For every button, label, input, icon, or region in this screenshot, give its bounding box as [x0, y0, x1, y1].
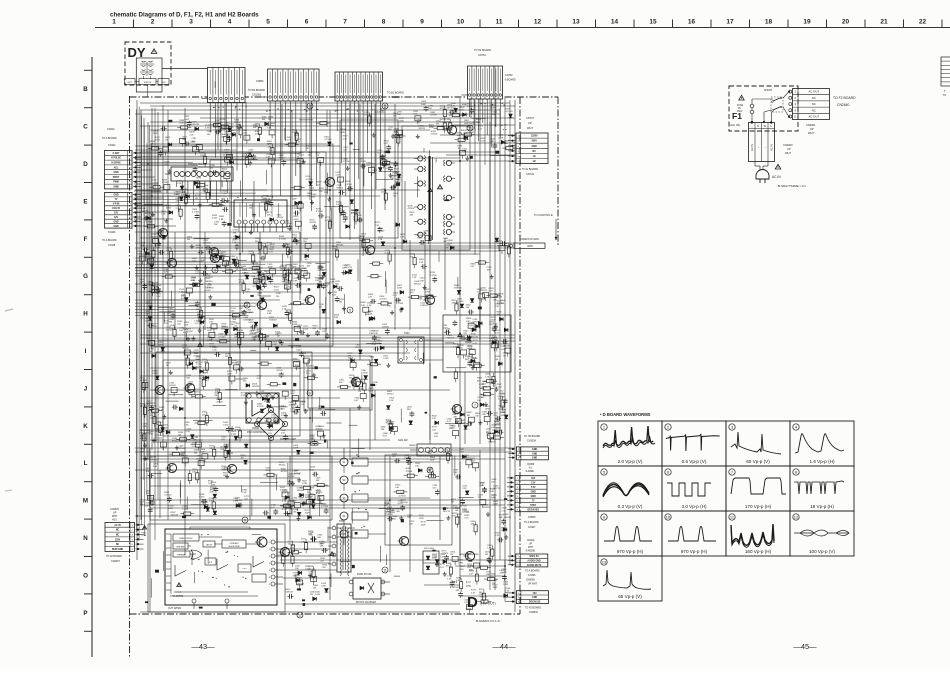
- svg-text:0.022: 0.022: [212, 218, 218, 220]
- svg-text:6.8K: 6.8K: [149, 285, 154, 287]
- svg-text:4.7/160: 4.7/160: [207, 287, 215, 289]
- svg-text:2.2K: 2.2K: [462, 488, 467, 490]
- svg-text:CN2600: CN2600: [783, 143, 793, 147]
- svg-text:MTZ12: MTZ12: [195, 362, 202, 364]
- svg-text:GND: GND: [532, 453, 537, 455]
- svg-text:AC OUT: AC OUT: [809, 90, 820, 94]
- svg-text:33K: 33K: [354, 379, 358, 381]
- svg-text:MTZ12: MTZ12: [310, 222, 317, 224]
- svg-text:10K: 10K: [395, 487, 399, 489]
- svg-text:2.2K: 2.2K: [184, 324, 189, 326]
- svg-text:1: 1: [112, 19, 116, 26]
- svg-text:33K: 33K: [316, 480, 320, 482]
- svg-text:GND: GND: [531, 496, 536, 498]
- svg-text:2.2K: 2.2K: [156, 248, 161, 250]
- svg-text:0.022: 0.022: [404, 458, 410, 460]
- svg-text:C: C: [83, 124, 88, 131]
- svg-text:MTZ12: MTZ12: [440, 108, 447, 110]
- svg-text:5: 5: [349, 308, 351, 312]
- svg-text:4.7/160: 4.7/160: [205, 127, 213, 129]
- svg-text:TV: TV: [115, 199, 118, 201]
- svg-text:6: 6: [269, 577, 270, 579]
- svg-text:160 Vp-p (H): 160 Vp-p (H): [745, 549, 772, 554]
- svg-text:170 Vp-p (H): 170 Vp-p (H): [745, 504, 772, 509]
- svg-text:47/50V: 47/50V: [378, 231, 385, 233]
- svg-text:1/2W: 1/2W: [498, 137, 503, 139]
- svg-text:1SS133: 1SS133: [364, 115, 372, 117]
- svg-text:10K: 10K: [165, 140, 169, 142]
- svg-text:4.7/160: 4.7/160: [164, 495, 172, 497]
- svg-text:10K: 10K: [491, 482, 495, 484]
- svg-text:6.8K: 6.8K: [359, 382, 364, 384]
- svg-text:2.2K: 2.2K: [477, 292, 482, 294]
- svg-text:TO E BOARD: TO E BOARD: [522, 167, 538, 171]
- svg-text:1SS133: 1SS133: [251, 263, 259, 265]
- svg-text:4.7/160: 4.7/160: [285, 223, 293, 225]
- svg-text:1/2W: 1/2W: [152, 326, 157, 328]
- svg-text:10K: 10K: [141, 245, 145, 247]
- svg-text:TO B1 BOARD: TO B1 BOARD: [248, 89, 265, 92]
- svg-text:1/2W: 1/2W: [268, 267, 273, 269]
- svg-text:3: 3: [189, 19, 193, 26]
- svg-text:33K: 33K: [222, 469, 226, 471]
- svg-text:1.5K: 1.5K: [269, 150, 274, 152]
- svg-text:7: 7: [343, 19, 347, 26]
- svg-text:1M: 1M: [286, 289, 289, 291]
- svg-text:2.2K: 2.2K: [375, 225, 380, 227]
- svg-text:1.5K: 1.5K: [270, 247, 275, 249]
- svg-text:1SS133: 1SS133: [503, 346, 511, 348]
- svg-text:6.8K: 6.8K: [242, 272, 247, 274]
- svg-text:4.7/160: 4.7/160: [506, 111, 514, 113]
- svg-text:10K: 10K: [150, 415, 154, 417]
- svg-text:33V: 33V: [531, 478, 536, 480]
- svg-text:1M: 1M: [195, 198, 198, 200]
- svg-text:GND: GND: [532, 458, 537, 460]
- svg-text:1.5K: 1.5K: [332, 249, 337, 251]
- svg-text:33K: 33K: [339, 382, 343, 384]
- svg-text:1: 1: [309, 104, 311, 108]
- svg-text:MTZ12: MTZ12: [419, 128, 426, 130]
- svg-text:1/2W: 1/2W: [466, 609, 471, 611]
- svg-text:1/2W: 1/2W: [261, 202, 266, 204]
- svg-text:10K: 10K: [457, 135, 461, 137]
- svg-text:1.5K: 1.5K: [229, 130, 234, 132]
- svg-text:1M: 1M: [301, 356, 304, 358]
- svg-text:MTZ12: MTZ12: [337, 188, 344, 190]
- svg-text:3: 3: [214, 268, 216, 272]
- svg-text:1M: 1M: [450, 554, 453, 556]
- svg-text:1.5K: 1.5K: [215, 391, 220, 393]
- svg-text:-S-R09E: -S-R09E: [525, 471, 534, 473]
- svg-text:4.7/160: 4.7/160: [361, 373, 369, 375]
- svg-text:1SS133: 1SS133: [501, 415, 509, 417]
- svg-text:10K: 10K: [188, 384, 192, 386]
- svg-text:GND: GND: [113, 221, 118, 223]
- svg-text:0.022: 0.022: [383, 358, 389, 360]
- svg-text:13: 13: [572, 19, 580, 26]
- svg-text:1/2W: 1/2W: [315, 594, 320, 596]
- svg-text:NC: NC: [812, 96, 816, 100]
- svg-text:6.8K: 6.8K: [456, 580, 461, 582]
- svg-text:CN707: CN707: [526, 116, 535, 120]
- svg-text:33K: 33K: [169, 322, 173, 324]
- svg-text:1.5K: 1.5K: [389, 400, 394, 402]
- svg-text:100P: 100P: [184, 119, 189, 121]
- svg-text:0.022: 0.022: [417, 238, 423, 240]
- svg-text:12V: 12V: [114, 213, 119, 215]
- svg-text:6.8K: 6.8K: [316, 493, 321, 495]
- svg-text:1M: 1M: [264, 339, 267, 341]
- svg-text:1SS133: 1SS133: [151, 460, 159, 462]
- svg-text:47/50V: 47/50V: [408, 208, 415, 210]
- svg-text:12V: 12V: [114, 217, 119, 219]
- svg-text:TO A BOARD: TO A BOARD: [524, 521, 539, 524]
- svg-text:47/50V: 47/50V: [496, 430, 503, 432]
- svg-text:15: 15: [649, 19, 657, 26]
- svg-text:10K: 10K: [455, 510, 459, 512]
- svg-text:1.5K: 1.5K: [281, 433, 286, 435]
- svg-text:1/2W: 1/2W: [164, 272, 169, 274]
- svg-text:JW950: JW950: [215, 80, 217, 88]
- svg-text:0.022: 0.022: [468, 361, 474, 363]
- svg-text:10K: 10K: [499, 517, 503, 519]
- svg-text:WHT: WHT: [785, 151, 791, 155]
- svg-text:100P: 100P: [158, 344, 163, 346]
- svg-text:0.022: 0.022: [155, 140, 161, 142]
- svg-text:10K: 10K: [475, 416, 479, 418]
- svg-text:47/50V: 47/50V: [406, 471, 413, 473]
- svg-text:MTZ12: MTZ12: [414, 283, 421, 285]
- svg-text:0.022: 0.022: [467, 348, 473, 350]
- svg-text:0.022: 0.022: [385, 253, 391, 255]
- svg-text:0.022: 0.022: [499, 393, 505, 395]
- svg-text:MTZ12: MTZ12: [279, 158, 286, 160]
- svg-text:7: 7: [269, 584, 270, 586]
- svg-text:NC: NC: [533, 151, 537, 153]
- svg-text:100P: 100P: [202, 373, 207, 375]
- svg-text:CN803N: CN803N: [526, 580, 535, 582]
- svg-text:—44—: —44—: [492, 642, 516, 651]
- svg-text:MTZ12: MTZ12: [194, 392, 201, 394]
- svg-text:1SS133: 1SS133: [503, 517, 511, 519]
- svg-text:GND: GND: [532, 449, 537, 451]
- svg-text:6.8K: 6.8K: [334, 317, 339, 319]
- svg-text:E: E: [83, 198, 87, 205]
- svg-text:1SS133: 1SS133: [278, 555, 286, 557]
- svg-text:47/50V: 47/50V: [162, 182, 169, 184]
- svg-text:FRE REF: FRE REF: [176, 546, 185, 548]
- svg-text:7: 7: [474, 403, 476, 407]
- svg-text:33K: 33K: [387, 305, 391, 307]
- svg-text:10K: 10K: [192, 471, 196, 473]
- svg-text:(AC IN): (AC IN): [730, 123, 740, 127]
- svg-text:33K: 33K: [181, 195, 185, 197]
- svg-text:13V: 13V: [533, 593, 538, 595]
- svg-text:0.022: 0.022: [157, 437, 163, 439]
- svg-text:UP WHT: UP WHT: [528, 584, 538, 586]
- svg-text:47/50V: 47/50V: [295, 368, 302, 370]
- svg-text:1M: 1M: [503, 355, 506, 357]
- svg-text:47/50V: 47/50V: [146, 221, 153, 223]
- svg-text:CN800: CN800: [256, 80, 264, 83]
- svg-text:1M: 1M: [178, 435, 181, 437]
- svg-text:47/50V: 47/50V: [294, 473, 301, 475]
- svg-text:6.8K: 6.8K: [201, 260, 206, 262]
- svg-text:CN10a: CN10a: [108, 144, 116, 147]
- svg-text:CN1000: CN1000: [391, 96, 401, 99]
- svg-text:4.7/160: 4.7/160: [306, 179, 314, 181]
- svg-text:AUDIO MUTE: AUDIO MUTE: [527, 564, 542, 567]
- svg-text:33K: 33K: [167, 315, 171, 317]
- svg-text:10K: 10K: [297, 328, 301, 330]
- svg-text:2.2K: 2.2K: [432, 418, 437, 420]
- svg-text:2.2K: 2.2K: [139, 433, 144, 435]
- svg-text:B-S04827-FX.1-S..: B-S04827-FX.1-S..: [476, 619, 502, 623]
- svg-text:1.5K: 1.5K: [184, 425, 189, 427]
- svg-text:1SS133: 1SS133: [358, 161, 366, 163]
- svg-text:32V/1.5A: 32V/1.5A: [529, 555, 539, 558]
- svg-text:1.5K: 1.5K: [177, 183, 182, 185]
- svg-text:4.7/160: 4.7/160: [394, 176, 402, 178]
- svg-text:1.5K: 1.5K: [159, 410, 164, 412]
- svg-text:1M: 1M: [324, 192, 327, 194]
- svg-text:1SS133: 1SS133: [171, 515, 179, 517]
- svg-text:1M: 1M: [447, 107, 450, 109]
- svg-text:1M: 1M: [224, 446, 227, 448]
- svg-text:1SS133: 1SS133: [336, 244, 344, 246]
- svg-text:10K: 10K: [261, 246, 265, 248]
- svg-text:7V: 7V: [532, 500, 535, 502]
- svg-text:B-SDA77S4ME.>-F1.: B-SDA77S4ME.>-F1.: [778, 184, 807, 188]
- svg-text:0.022: 0.022: [231, 434, 237, 436]
- svg-text:47/50V: 47/50V: [179, 448, 186, 450]
- svg-text:1/2W: 1/2W: [207, 330, 212, 332]
- svg-text:B: B: [83, 86, 88, 93]
- svg-text:MTZ12: MTZ12: [232, 363, 239, 365]
- svg-text:WHT: WHT: [527, 126, 533, 130]
- svg-text:NC: NC: [116, 535, 120, 537]
- svg-text:100P: 100P: [293, 447, 298, 449]
- svg-text:100P: 100P: [264, 273, 269, 275]
- svg-text:12: 12: [298, 613, 302, 617]
- svg-text:33K: 33K: [264, 421, 268, 423]
- svg-text:10K: 10K: [320, 546, 324, 548]
- svg-text:100P: 100P: [493, 504, 498, 506]
- svg-text:1M: 1M: [214, 395, 217, 397]
- svg-text:2.2K: 2.2K: [479, 387, 484, 389]
- svg-text:33K: 33K: [482, 414, 486, 416]
- svg-text:1SS133: 1SS133: [246, 312, 254, 314]
- svg-text:33K: 33K: [407, 409, 411, 411]
- svg-text:MTZ12: MTZ12: [151, 291, 158, 293]
- svg-text:2: 2: [151, 19, 155, 26]
- svg-text:—45—: —45—: [793, 642, 817, 651]
- svg-text:2.2K: 2.2K: [368, 314, 373, 316]
- svg-text:6.8K: 6.8K: [267, 128, 272, 130]
- svg-text:AC OUT: AC OUT: [809, 115, 820, 119]
- svg-text:6.8K: 6.8K: [219, 219, 224, 221]
- svg-text:4.7/160: 4.7/160: [316, 211, 324, 213]
- svg-text:1.5K: 1.5K: [359, 239, 364, 241]
- svg-text:100P: 100P: [292, 198, 297, 200]
- svg-text:100P: 100P: [153, 133, 158, 135]
- svg-text:1M: 1M: [187, 387, 190, 389]
- svg-text:100P: 100P: [368, 391, 373, 393]
- svg-text:CN2607: CN2607: [111, 560, 120, 563]
- svg-text:6.8K: 6.8K: [462, 151, 467, 153]
- svg-text:10K: 10K: [267, 215, 271, 217]
- svg-text:8: 8: [382, 19, 386, 26]
- svg-text:1SS133: 1SS133: [480, 597, 488, 599]
- svg-text:4.7/160: 4.7/160: [324, 139, 332, 141]
- svg-text:0.022: 0.022: [205, 290, 211, 292]
- svg-text:47/50V: 47/50V: [166, 330, 173, 332]
- svg-text:NC: NC: [116, 544, 120, 546]
- svg-text:GND: GND: [531, 491, 536, 493]
- svg-text:4.7/160: 4.7/160: [192, 212, 200, 214]
- svg-text:F1: F1: [732, 111, 742, 121]
- svg-text:33K: 33K: [319, 544, 323, 546]
- svg-text:60 Vp-p (V): 60 Vp-p (V): [746, 459, 770, 464]
- svg-text:20: 20: [842, 19, 850, 26]
- svg-text:2.2K: 2.2K: [272, 344, 277, 346]
- svg-text:33K: 33K: [349, 378, 353, 380]
- svg-text:1M: 1M: [492, 583, 495, 585]
- svg-text:1M: 1M: [268, 119, 271, 121]
- svg-text:6.8K: 6.8K: [291, 411, 296, 413]
- svg-text:CC/V-B: CC/V-B: [112, 208, 120, 210]
- svg-text:17: 17: [726, 19, 734, 26]
- svg-text:33K: 33K: [436, 123, 440, 125]
- svg-text:0.022: 0.022: [398, 503, 404, 505]
- svg-text:1M: 1M: [482, 389, 485, 391]
- svg-text:1.5K: 1.5K: [447, 578, 452, 580]
- svg-text:TO: TO: [943, 94, 946, 97]
- svg-text:FUSE: FUSE: [737, 105, 744, 107]
- svg-text:47/50V: 47/50V: [292, 132, 299, 134]
- svg-text:GND: GND: [532, 597, 537, 599]
- svg-text:6.8K: 6.8K: [293, 281, 298, 283]
- svg-text:6: 6: [309, 391, 311, 395]
- svg-text:47/50V: 47/50V: [457, 301, 464, 303]
- svg-text:MTZ12: MTZ12: [467, 106, 474, 108]
- svg-text:6.8K: 6.8K: [266, 157, 271, 159]
- svg-text:47/50V: 47/50V: [150, 406, 157, 408]
- svg-text:2.2K: 2.2K: [268, 433, 273, 435]
- svg-text:1M: 1M: [219, 130, 222, 132]
- svg-text:100P: 100P: [305, 512, 310, 514]
- svg-text:1/2W: 1/2W: [281, 415, 286, 417]
- svg-text:10K: 10K: [295, 568, 299, 570]
- svg-text:N: N: [757, 124, 759, 128]
- svg-text:DEGAUSS: DEGAUSS: [528, 508, 540, 511]
- svg-text:2: 2: [269, 549, 270, 551]
- svg-text:1/2W: 1/2W: [242, 133, 247, 135]
- svg-text:6.8K: 6.8K: [221, 449, 226, 451]
- svg-text:33K: 33K: [214, 224, 218, 226]
- svg-text:33K: 33K: [388, 129, 392, 131]
- svg-text:chematic Diagrams of D, F1, F2: chematic Diagrams of D, F1, F2, H1 and H…: [110, 12, 259, 19]
- svg-text:1/2W: 1/2W: [158, 425, 163, 427]
- svg-text:0.5 Vp-p (V): 0.5 Vp-p (V): [682, 459, 707, 464]
- svg-text:47/50V: 47/50V: [431, 134, 438, 136]
- svg-text:6.8K: 6.8K: [301, 541, 306, 543]
- svg-text:L: L: [84, 460, 88, 467]
- svg-text:AC IN: AC IN: [772, 175, 781, 179]
- svg-text:4.7/160: 4.7/160: [380, 299, 388, 301]
- svg-text:22: 22: [919, 19, 927, 26]
- svg-text:1M: 1M: [458, 148, 461, 150]
- svg-text:3: 3: [269, 556, 270, 558]
- svg-text:4: 4: [246, 303, 248, 307]
- svg-text:1.5K: 1.5K: [209, 501, 214, 503]
- svg-text:10K: 10K: [499, 296, 503, 298]
- svg-text:33K: 33K: [307, 492, 311, 494]
- svg-text:7.5V: 7.5V: [531, 487, 536, 489]
- svg-text:33K: 33K: [194, 452, 198, 454]
- svg-text:6.8K: 6.8K: [143, 426, 148, 428]
- svg-text:2.2K: 2.2K: [464, 518, 469, 520]
- svg-text:6: 6: [305, 19, 309, 26]
- svg-text:0.022: 0.022: [199, 497, 205, 499]
- svg-text:1SS133: 1SS133: [454, 288, 462, 290]
- svg-text:47/50V: 47/50V: [460, 506, 467, 508]
- svg-text:47/50V: 47/50V: [276, 370, 283, 372]
- svg-text:10: 10: [468, 126, 472, 130]
- svg-text:10K: 10K: [469, 325, 473, 327]
- svg-text:4.7/160: 4.7/160: [343, 161, 351, 163]
- svg-text:100P: 100P: [266, 470, 271, 472]
- svg-text:47/50V: 47/50V: [379, 159, 386, 161]
- svg-text:8: 8: [429, 468, 431, 472]
- svg-text:I: I: [85, 348, 87, 355]
- svg-text:33K: 33K: [417, 121, 421, 123]
- svg-text:JA04 GM: JA04 GM: [398, 439, 408, 442]
- svg-text:1/2W: 1/2W: [280, 269, 285, 271]
- svg-text:AC IN: AC IN: [114, 524, 121, 527]
- svg-text:GRN: GRN: [527, 245, 533, 248]
- svg-text:200V: 200V: [532, 141, 538, 143]
- svg-text:2.2K: 2.2K: [140, 282, 145, 284]
- svg-text:STR-S6709: STR-S6709: [170, 595, 184, 598]
- svg-text:-S BOARD: -S BOARD: [504, 79, 516, 82]
- svg-text:1.5K: 1.5K: [501, 510, 506, 512]
- svg-text:1SS133: 1SS133: [309, 190, 317, 192]
- svg-text:1M: 1M: [166, 365, 169, 367]
- svg-text:11: 11: [383, 568, 387, 572]
- svg-text:GND: GND: [113, 195, 118, 197]
- svg-text:WHT: WHT: [528, 547, 534, 549]
- svg-text:N: N: [83, 535, 88, 542]
- svg-text:0.022: 0.022: [207, 340, 213, 342]
- svg-text:1M: 1M: [231, 324, 234, 326]
- svg-text:0.022: 0.022: [209, 448, 215, 450]
- svg-text:1.5K: 1.5K: [343, 138, 348, 140]
- svg-text:TO H4 BOARD: TO H4 BOARD: [474, 49, 491, 52]
- svg-text:33K: 33K: [471, 523, 475, 525]
- svg-text:47/50V: 47/50V: [263, 396, 270, 398]
- svg-text:1.5K: 1.5K: [412, 277, 417, 279]
- svg-text:SHUNT: SHUNT: [764, 89, 773, 92]
- svg-text:TO A BOARD: TO A BOARD: [102, 239, 117, 242]
- svg-text:100P: 100P: [299, 497, 304, 499]
- svg-text:TO A BOARD: TO A BOARD: [525, 570, 540, 573]
- svg-text:CN10b: CN10b: [108, 231, 116, 234]
- svg-text:1M: 1M: [313, 587, 316, 589]
- svg-text:CN100A: CN100A: [527, 440, 536, 443]
- svg-text:100P: 100P: [493, 587, 498, 589]
